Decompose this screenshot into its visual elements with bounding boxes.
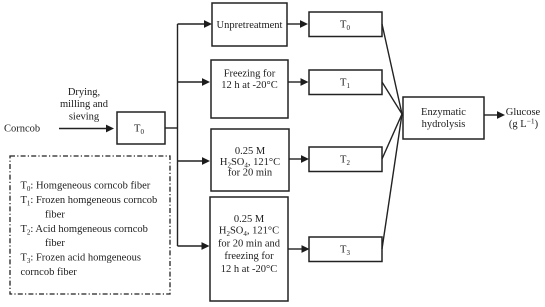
svg-text:Corncob: Corncob	[4, 124, 40, 135]
svg-text:for 20 min: for 20 min	[228, 168, 273, 179]
svg-text:freezing for: freezing for	[224, 251, 274, 262]
svg-text:sieving: sieving	[69, 111, 100, 122]
svg-text:T1: Frozen homgeneous corncob: T1: Frozen homgeneous corncob	[21, 195, 158, 208]
svg-text:Unpretreatment: Unpretreatment	[217, 20, 283, 31]
svg-text:T2: T2	[340, 155, 350, 168]
svg-text:12 h at -20°C: 12 h at -20°C	[221, 264, 277, 275]
svg-text:(g L−1): (g L−1)	[509, 117, 539, 131]
svg-text:T0: Homgeneous corncob fiber: T0: Homgeneous corncob fiber	[21, 181, 151, 194]
svg-text:T3: T3	[340, 245, 350, 258]
svg-text:fiber: fiber	[45, 238, 65, 249]
svg-text:H2SO4, 121°C: H2SO4, 121°C	[219, 226, 279, 239]
svg-text:T1: T1	[340, 78, 350, 91]
svg-text:0.25 M: 0.25 M	[235, 146, 266, 157]
svg-text:fiber: fiber	[45, 209, 65, 220]
svg-text:12 h at -20°C: 12 h at -20°C	[221, 80, 277, 91]
svg-text:T3: Frozen acid homgeneous: T3: Frozen acid homgeneous	[21, 253, 141, 266]
svg-text:T0: T0	[134, 124, 144, 137]
svg-text:Freezing for: Freezing for	[224, 69, 276, 80]
svg-text:Drying,: Drying,	[68, 87, 100, 98]
svg-text:corncob fiber: corncob fiber	[21, 267, 78, 278]
svg-text:milling and: milling and	[60, 99, 109, 110]
svg-text:T2: Acid homgeneous corncob: T2: Acid homgeneous corncob	[21, 224, 148, 237]
svg-text:Glucose: Glucose	[506, 107, 541, 118]
svg-text:for 20 min and: for 20 min and	[218, 239, 281, 250]
svg-text:T0: T0	[340, 20, 350, 32]
svg-text:hydrolysis: hydrolysis	[422, 119, 466, 130]
svg-text:Enzymatic: Enzymatic	[421, 107, 466, 118]
svg-text:0.25 M: 0.25 M	[234, 214, 265, 225]
